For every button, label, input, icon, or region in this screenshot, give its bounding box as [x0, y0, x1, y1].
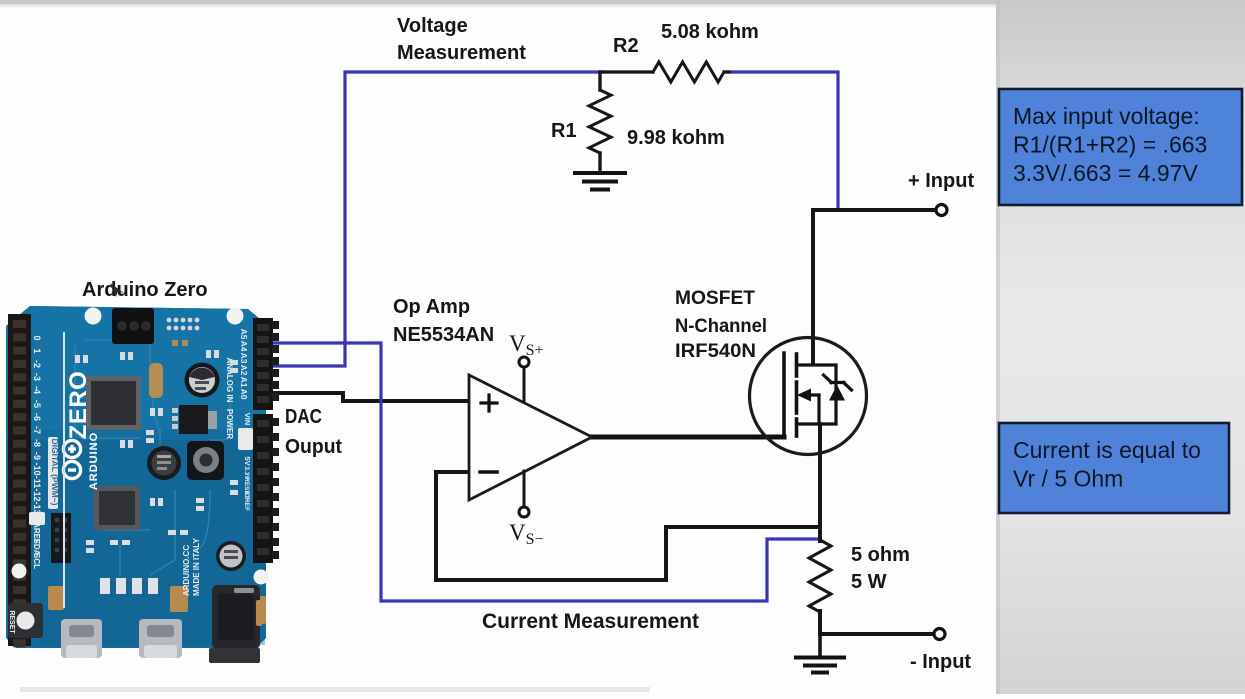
- board PCB: [6, 306, 266, 648]
- MOSFET body diode: [829, 385, 845, 401]
- svg-text:3.3V/.663 = 4.97V: 3.3V/.663 = 4.97V: [1013, 160, 1198, 186]
- svg-text:Vr / 5 Ohm: Vr / 5 Ohm: [1013, 466, 1123, 492]
- power inductor: [187, 441, 224, 480]
- electrolytic capacitor C2: [147, 446, 181, 480]
- svg-text:Max input voltage:: Max input voltage:: [1013, 103, 1200, 129]
- electrolytic capacitor C3: [216, 541, 246, 571]
- svg-text:9.98 kohm: 9.98 kohm: [627, 127, 725, 149]
- MOSFET drain connection: [797, 365, 836, 424]
- svg-text:ZERO: ZERO: [65, 371, 92, 440]
- ground below shunt: [796, 658, 844, 673]
- svg-text:ARDUINO.CC: ARDUINO.CC: [182, 545, 191, 596]
- svg-text:A2: A2: [239, 365, 249, 376]
- svg-text:-7: -7: [32, 426, 42, 434]
- op-amp VS- pin: [523, 471, 526, 507]
- micro USB 2: [139, 619, 182, 658]
- wire blue A4 to shunt top (current measurement): [266, 343, 818, 601]
- svg-text:Voltage: Voltage: [397, 15, 468, 37]
- left pin header: [8, 314, 31, 647]
- svg-text:IRF540N: IRF540N: [675, 341, 756, 362]
- node +Input terminal: [936, 205, 947, 216]
- JTAG header: [51, 513, 71, 563]
- svg-text:-3: -3: [32, 373, 42, 381]
- right pin labels: [225, 329, 252, 511]
- DC barrel jack: [212, 585, 260, 649]
- LED row: [100, 578, 158, 594]
- svg-text:-12: -12: [32, 488, 42, 501]
- wire MOSFET source to shunt resistor: [818, 424, 822, 541]
- svg-text:-5: -5: [32, 400, 42, 408]
- svg-text:MADE IN ITALY: MADE IN ITALY: [192, 538, 201, 596]
- svg-text:5V: 5V: [243, 456, 252, 465]
- svg-text:5 W: 5 W: [851, 571, 887, 593]
- svg-text:A3: A3: [239, 353, 249, 364]
- svg-text:- Input: - Input: [910, 651, 971, 673]
- svg-text:R1/(R1+R2) = .663: R1/(R1+R2) = .663: [1013, 131, 1207, 157]
- svg-text:A5: A5: [239, 329, 249, 340]
- svg-text:-8: -8: [32, 439, 42, 447]
- wire black DAC output A0 to op-amp + input: [267, 393, 469, 401]
- silkscreen divider line: [63, 332, 65, 608]
- svg-text:A4: A4: [239, 341, 249, 352]
- svg-text:R1: R1: [551, 120, 577, 142]
- EDBG chip: [94, 486, 140, 530]
- made in italy silkscreen: [182, 538, 201, 596]
- right pin header: [253, 318, 279, 624]
- svg-text:-6: -6: [32, 413, 42, 421]
- ICSP 3-pin header: [112, 308, 154, 344]
- reset button: [8, 603, 43, 638]
- left pin labels: [8, 335, 60, 634]
- GND silkscreen tag: [238, 428, 253, 450]
- svg-text:SCL: SCL: [32, 553, 41, 569]
- crystal: [149, 363, 163, 398]
- small SMD passives: [75, 340, 238, 553]
- svg-text:R2: R2: [613, 35, 639, 57]
- op-amp U1 NE5534AN: [469, 375, 592, 500]
- SMD pad cluster: [167, 318, 200, 331]
- wire blue A2 to R1/R2 node (voltage measurement): [266, 72, 604, 366]
- svg-text:5 ohm: 5 ohm: [851, 544, 910, 566]
- resistor 5 ohm 5 W shunt: [809, 540, 831, 612]
- ground below R1: [575, 173, 625, 190]
- svg-text:IOREF: IOREF: [243, 491, 250, 511]
- svg-text:Current is equal to: Current is equal to: [1013, 437, 1201, 463]
- wire +Input to MOSFET drain: [813, 210, 934, 363]
- svg-text:Op Amp: Op Amp: [393, 296, 470, 318]
- svg-text:NE5534AN: NE5534AN: [393, 324, 494, 346]
- svg-text:+ Input: + Input: [908, 170, 974, 192]
- Arduino Zero board photo: [6, 283, 279, 663]
- mouse cursor: [110, 283, 124, 297]
- MOSFET channel dashes: [795, 354, 799, 436]
- svg-text:Current Measurement: Current Measurement: [482, 610, 699, 633]
- svg-text:-11: -11: [32, 476, 42, 489]
- svg-text:Ouput: Ouput: [285, 436, 342, 458]
- svg-text:0: 0: [32, 335, 42, 340]
- svg-text:5.08 kohm: 5.08 kohm: [661, 21, 759, 43]
- svg-text:VIN: VIN: [243, 413, 252, 426]
- wire feedback from shunt top to op-amp - input: [436, 472, 818, 580]
- svg-text:1: 1: [32, 348, 42, 353]
- svg-text:RESET: RESET: [8, 610, 15, 634]
- wire blue R2 right to +Input node: [727, 72, 838, 209]
- svg-text:Arduino Zero: Arduino Zero: [82, 279, 208, 301]
- svg-text:-10: -10: [32, 462, 42, 475]
- micro USB 1: [61, 619, 102, 658]
- svg-text:-9: -9: [32, 452, 42, 460]
- wire ground stub below shunt: [818, 634, 822, 657]
- svg-text:POWER: POWER: [225, 409, 234, 439]
- tantalum caps: [170, 586, 188, 612]
- MCU chip: [86, 376, 141, 430]
- node -Input terminal: [934, 629, 945, 640]
- wire shunt resistor to -Input: [820, 611, 932, 634]
- note box current equation: [999, 423, 1229, 513]
- MOSFET source arrow: [806, 393, 819, 396]
- regulator: [179, 405, 208, 434]
- svg-text:-2: -2: [32, 360, 42, 368]
- label VS+: [509, 331, 544, 548]
- svg-text:ARDUINO: ARDUINO: [88, 432, 100, 490]
- MOSFET gate bar: [782, 353, 786, 436]
- resistor R2 5.08 kohm: [602, 62, 729, 82]
- svg-text:MOSFET: MOSFET: [675, 288, 755, 309]
- transistor Q1 MOSFET IRF540N circle: [750, 338, 867, 455]
- op-amp + input marking: [481, 395, 497, 411]
- svg-text:A0: A0: [239, 389, 249, 400]
- mounting holes: [85, 308, 102, 325]
- resistor R1 9.98 kohm: [589, 72, 611, 172]
- svg-text:-4: -4: [32, 386, 42, 394]
- DIGITAL silkscreen tag: [48, 437, 58, 509]
- note box max input voltage: [999, 89, 1242, 205]
- svg-text:DIGITAL (PWM~): DIGITAL (PWM~): [50, 439, 60, 506]
- op-amp - input marking: [480, 470, 497, 474]
- svg-text:A1: A1: [239, 377, 249, 388]
- svg-text:N-Channel: N-Channel: [675, 316, 767, 337]
- infinity logo: [63, 440, 80, 478]
- op-amp VS+ pin: [523, 367, 526, 402]
- electrolytic capacitor C1: [185, 363, 220, 398]
- svg-text:DAC: DAC: [285, 406, 322, 428]
- svg-text:Measurement: Measurement: [397, 42, 526, 64]
- wire op-amp output to MOSFET gate: [590, 435, 784, 440]
